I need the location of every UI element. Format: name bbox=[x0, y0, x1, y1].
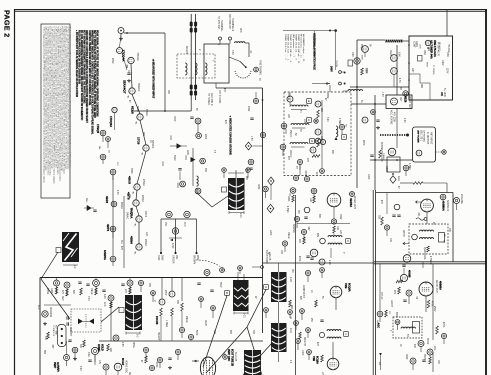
svg-text:SOUND: SOUND bbox=[292, 224, 294, 233]
svg-text:340V: 340V bbox=[405, 354, 407, 360]
tuner TP 3B bbox=[403, 91, 408, 96]
svg-text:T1 TP(M3): T1 TP(M3) bbox=[432, 65, 434, 75]
res 3B2 bbox=[361, 68, 364, 75]
tuner input coil bbox=[235, 42, 245, 43]
svg-text:6.3V: 6.3V bbox=[116, 190, 118, 195]
svg-text:47K: 47K bbox=[120, 246, 122, 251]
svg-text:6CQ8A: 6CQ8A bbox=[316, 356, 319, 364]
svg-text:10K: 10K bbox=[44, 336, 46, 341]
svg-text:22K: 22K bbox=[298, 239, 300, 244]
svg-text:100K: 100K bbox=[301, 350, 303, 356]
yoke A leads bbox=[212, 196, 228, 207]
svg-text:TEST: TEST bbox=[426, 62, 428, 68]
sync circles mid bbox=[113, 335, 119, 341]
svg-text:VIDEO OUT: VIDEO OUT bbox=[353, 196, 355, 209]
svg-text:.047: .047 bbox=[51, 344, 53, 349]
svg-text:8.2K: 8.2K bbox=[103, 294, 105, 299]
svg-text:RF interference .......... 14: RF interference .......... 14 bbox=[300, 34, 303, 58]
svg-text:TERMINAL: TERMINAL bbox=[220, 20, 223, 32]
svg-text:SET TO PRODUCE 30 VOLTS PEAK-T: SET TO PRODUCE 30 VOLTS PEAK-TO-PEAK SIG… bbox=[93, 30, 96, 118]
svg-text:1 MEG: 1 MEG bbox=[165, 320, 167, 327]
svg-text:4BU8: 4BU8 bbox=[128, 176, 132, 184]
svg-text:2ND IF: 2ND IF bbox=[289, 130, 291, 138]
svg-text:HORIZ: HORIZ bbox=[97, 344, 100, 352]
svg-text:2C2: 2C2 bbox=[116, 162, 118, 165]
svg-text:62VAC: 62VAC bbox=[145, 109, 148, 116]
240v TP bbox=[253, 98, 258, 103]
svg-text:15K: 15K bbox=[280, 250, 282, 255]
svg-text:1K5: 1K5 bbox=[303, 119, 305, 124]
svg-text:30V: 30V bbox=[175, 255, 177, 260]
VHF tuner box bbox=[409, 36, 453, 100]
svg-text:★ MEASURED WITH SWEEP INPUT: ★ MEASURED WITH SWEEP INPUT bbox=[152, 58, 155, 99]
svg-text:TUNER 175-23 VHF sch ..... 12: TUNER 175-23 VHF sch ..... 12 bbox=[297, 34, 299, 64]
svg-text:180K: 180K bbox=[287, 196, 289, 202]
audio quad box bbox=[393, 317, 422, 338]
IF right coil bbox=[336, 126, 338, 137]
uhf dotted leader bbox=[380, 134, 406, 136]
svg-text:3CB6: 3CB6 bbox=[136, 106, 138, 112]
svg-text:9-21: 9-21 bbox=[239, 213, 241, 218]
svg-text:82K: 82K bbox=[72, 290, 74, 295]
svg-text:3BZ6: 3BZ6 bbox=[130, 168, 132, 174]
svg-text:(SEE NOTES): (SEE NOTES) bbox=[312, 36, 314, 49]
afc diode box bbox=[71, 309, 101, 332]
svg-text:220K: 220K bbox=[365, 68, 367, 74]
svg-text:SEP: SEP bbox=[61, 296, 63, 301]
sound quad box bbox=[409, 224, 448, 254]
svg-text:9-19: 9-19 bbox=[289, 328, 291, 333]
blob D top wires bbox=[237, 272, 239, 280]
svg-text:17C9: 17C9 bbox=[137, 137, 141, 145]
svg-text:3AL: 3AL bbox=[98, 146, 101, 149]
bottom bus y341 bbox=[99, 340, 263, 342]
svg-text:165V: 165V bbox=[257, 184, 259, 190]
svg-text:2AV2: 2AV2 bbox=[111, 58, 114, 64]
svg-text:X: X bbox=[343, 135, 345, 139]
svg-text:68K: 68K bbox=[290, 305, 292, 310]
svg-text:4BZ6: 4BZ6 bbox=[105, 196, 109, 203]
svg-text:CONT: CONT bbox=[413, 41, 415, 48]
yoke pictorial B bbox=[62, 232, 79, 262]
svg-text:68K: 68K bbox=[204, 168, 206, 173]
svg-text:MIX: MIX bbox=[427, 47, 429, 52]
svg-text:270K: 270K bbox=[155, 362, 157, 368]
svg-text:FINE TUNING: FINE TUNING bbox=[259, 60, 261, 75]
agc line parts bbox=[190, 117, 193, 119]
svg-text:30V: 30V bbox=[176, 300, 178, 305]
svg-text:USE 175-1: USE 175-1 bbox=[420, 130, 422, 142]
sync wires bbox=[56, 278, 58, 281]
afc diagonals bbox=[41, 279, 70, 319]
svg-text:SPKR: SPKR bbox=[426, 338, 428, 345]
svg-text:AGC KEYING: AGC KEYING bbox=[390, 110, 393, 125]
svg-text:OSC: OSC bbox=[87, 352, 89, 357]
IF row2 bbox=[281, 123, 287, 129]
agc diamond mid bbox=[245, 142, 251, 150]
svg-text:23VAC: 23VAC bbox=[142, 179, 145, 186]
svg-text:1K: 1K bbox=[388, 311, 390, 314]
svg-text:OSC: OSC bbox=[446, 52, 448, 57]
svg-text:PICT TUBE: PICT TUBE bbox=[55, 325, 57, 336]
svg-text:PIX: PIX bbox=[297, 210, 299, 214]
agc diamond2 bbox=[390, 176, 396, 184]
svg-text:30V: 30V bbox=[148, 283, 150, 288]
IF out wire bbox=[351, 103, 386, 105]
svg-text:4HM6A: 4HM6A bbox=[442, 201, 446, 212]
svg-text:140V: 140V bbox=[157, 255, 159, 261]
afc TP left bbox=[42, 311, 48, 317]
svg-text:6.8K: 6.8K bbox=[121, 342, 123, 347]
sync box outline bbox=[40, 277, 263, 279]
audio tubes bbox=[402, 265, 405, 267]
svg-text:39K: 39K bbox=[320, 108, 322, 113]
svg-text:VERT: VERT bbox=[204, 320, 206, 327]
svg-text:470K: 470K bbox=[171, 243, 173, 249]
svg-text:5VAC: 5VAC bbox=[173, 155, 176, 161]
IF bottom tps bbox=[297, 159, 302, 164]
osc TP bbox=[354, 58, 360, 64]
svg-text:SOUND IF: SOUND IF bbox=[446, 200, 448, 212]
connector strip bbox=[58, 325, 67, 347]
svg-text:1ST IF: 1ST IF bbox=[287, 93, 289, 101]
interlock bbox=[339, 71, 342, 74]
svg-text:4.5MC: 4.5MC bbox=[286, 206, 288, 213]
svg-text:HORIZ OSC: HORIZ OSC bbox=[125, 360, 127, 373]
svg-text:10K: 10K bbox=[389, 238, 391, 243]
svg-text:ARROWS ON CONTROLS INDICATE CL: ARROWS ON CONTROLS INDICATE CLOCKWISE RO… bbox=[85, 30, 88, 124]
IF verticals bbox=[321, 100, 323, 168]
svg-text:TP: TP bbox=[442, 240, 444, 243]
svg-text:100K: 100K bbox=[367, 174, 369, 180]
svg-text:8.2K: 8.2K bbox=[79, 366, 81, 371]
svg-text:265V: 265V bbox=[164, 290, 166, 296]
video det box bbox=[386, 95, 412, 109]
svg-text:227V: 227V bbox=[446, 68, 448, 74]
svg-text:TX: TX bbox=[406, 334, 408, 337]
svg-text:6AW8A: 6AW8A bbox=[103, 250, 107, 261]
svg-text:6CG7: 6CG7 bbox=[121, 358, 125, 366]
svg-text:FILT: FILT bbox=[183, 222, 185, 227]
takeoff circle bbox=[261, 266, 264, 269]
sound box outline bbox=[376, 192, 453, 194]
yoke B lead bbox=[41, 252, 58, 279]
svg-text:X: X bbox=[347, 239, 349, 243]
svg-text:RATIO: RATIO bbox=[402, 230, 405, 237]
svg-text:9-21: 9-21 bbox=[243, 313, 245, 318]
page border right bbox=[485, 9, 487, 375]
flyback arc bbox=[196, 260, 226, 272]
svg-text:CONTRAST: CONTRAST bbox=[302, 285, 305, 298]
notes text box bbox=[41, 24, 70, 198]
IF dashed box bbox=[284, 92, 351, 176]
agc cluster bbox=[379, 150, 382, 158]
svg-text:15K: 15K bbox=[164, 222, 166, 227]
svg-text:240V: 240V bbox=[330, 66, 333, 72]
svg-text:47K: 47K bbox=[61, 290, 63, 295]
svg-text:1.2K: 1.2K bbox=[57, 366, 59, 371]
svg-text:UHF: UHF bbox=[239, 28, 241, 33]
svg-text:3.3K: 3.3K bbox=[231, 50, 233, 55]
svg-text:350V: 350V bbox=[219, 282, 221, 288]
IF row3 bbox=[280, 144, 286, 150]
svg-text:BRIGHT: BRIGHT bbox=[303, 337, 305, 346]
svg-text:150V: 150V bbox=[173, 116, 175, 122]
svg-text:7AL: 7AL bbox=[127, 95, 130, 98]
b+ vertical wires bbox=[356, 40, 358, 188]
bottom big tube bbox=[200, 357, 215, 375]
sync bottom parts bbox=[143, 347, 148, 352]
svg-text:AFC: AFC bbox=[37, 305, 40, 310]
mid circles2 bbox=[204, 270, 210, 276]
svg-text:.015: .015 bbox=[123, 80, 125, 85]
yoke A top wires bbox=[235, 170, 237, 178]
svg-text:1ST AF: 1ST AF bbox=[380, 292, 383, 300]
svg-text:TP: TP bbox=[107, 150, 109, 153]
svg-text:Socket voltages measured with: Socket voltages measured with no signal … bbox=[69, 27, 72, 169]
svg-text:560K: 560K bbox=[195, 330, 197, 336]
svg-text:7AL: 7AL bbox=[134, 223, 137, 226]
blob EF wires bbox=[278, 302, 280, 323]
svg-text:ALIGNMENT subject ........ 15: ALIGNMENT subject ........ 15 bbox=[302, 34, 305, 62]
svg-text:4BZ6: 4BZ6 bbox=[404, 96, 408, 103]
svg-text:VIDEO DET: VIDEO DET bbox=[408, 96, 410, 109]
svg-text:←AGC: ←AGC bbox=[377, 320, 380, 328]
svg-text:7AL: 7AL bbox=[132, 191, 135, 194]
svg-text:6BQ7: 6BQ7 bbox=[360, 44, 362, 51]
tube 3A bbox=[362, 46, 369, 53]
svg-text:SYNC: SYNC bbox=[46, 288, 48, 295]
svg-text:.001: .001 bbox=[417, 212, 419, 217]
svg-text:.0047: .0047 bbox=[304, 170, 306, 176]
svg-text:33K: 33K bbox=[378, 215, 380, 220]
svg-text:(OPTIONAL): (OPTIONAL) bbox=[423, 130, 426, 142]
svg-text:140V: 140V bbox=[441, 60, 443, 66]
svg-text:A: A bbox=[265, 285, 267, 289]
svg-text:TO VHF ANT: TO VHF ANT bbox=[217, 16, 220, 30]
svg-text:RING: RING bbox=[132, 342, 134, 348]
svg-text:BROWN: BROWN bbox=[193, 255, 195, 264]
svg-text:6CQ8A: 6CQ8A bbox=[348, 283, 352, 292]
bottom border mid bbox=[263, 262, 375, 264]
svg-text:MIX: MIX bbox=[420, 84, 422, 89]
svg-text:47K 220K: 47K 220K bbox=[393, 112, 395, 123]
svg-text:VERT OSC: VERT OSC bbox=[227, 349, 230, 361]
svg-text:265V: 265V bbox=[362, 140, 364, 146]
svg-text:2.2K: 2.2K bbox=[328, 260, 330, 265]
pilot tube bbox=[118, 28, 124, 34]
contrast cluster bbox=[305, 270, 310, 275]
svg-text:680K: 680K bbox=[395, 312, 397, 318]
divider x295 bottom bbox=[295, 263, 297, 375]
svg-text:CONTROL VIEWED FROM SHAFT END: CONTROL VIEWED FROM SHAFT END SET FOR NO… bbox=[88, 30, 91, 106]
chain wire2 bbox=[123, 196, 125, 268]
heater diode bbox=[84, 206, 94, 211]
svg-text:AUDIO OUT: AUDIO OUT bbox=[435, 280, 438, 293]
svg-text:DISCRIM: DISCRIM bbox=[49, 307, 51, 317]
switch TP bbox=[254, 67, 259, 72]
svg-text:22VAC: 22VAC bbox=[141, 195, 144, 202]
wire antenna down bbox=[190, 100, 192, 111]
mid bottom parts bbox=[151, 291, 156, 296]
svg-text:1K: 1K bbox=[310, 290, 312, 293]
diamond 271 bbox=[268, 177, 274, 185]
svg-text:F: F bbox=[308, 118, 310, 122]
svg-text:4BT6: 4BT6 bbox=[106, 224, 110, 231]
svg-text:7AL: 7AL bbox=[134, 251, 137, 254]
svg-text:29VAC: 29VAC bbox=[120, 202, 123, 209]
svg-text:LIN: LIN bbox=[213, 330, 215, 334]
svg-text:35C5: 35C5 bbox=[423, 354, 425, 360]
antenna solid box bbox=[204, 44, 229, 83]
4.5mc tube bbox=[388, 148, 396, 156]
svg-text:6EA8: 6EA8 bbox=[131, 106, 135, 114]
svg-text:HEIGHT: HEIGHT bbox=[157, 332, 159, 341]
svg-text:10K: 10K bbox=[309, 198, 311, 203]
heater chain tubes bbox=[128, 57, 134, 63]
svg-text:ANT INPUT: ANT INPUT bbox=[430, 132, 433, 145]
balun dashed box bbox=[177, 54, 215, 78]
svg-text:AGC 2ND IF: AGC 2ND IF bbox=[210, 93, 213, 106]
blob G bbox=[244, 350, 261, 375]
svg-text:TERMINALS: TERMINALS bbox=[231, 18, 234, 32]
svg-text:17BQ6: 17BQ6 bbox=[96, 124, 100, 134]
fine tuning switch bbox=[240, 61, 246, 67]
svg-text:13V: 13V bbox=[98, 360, 100, 365]
svg-text:3.9K: 3.9K bbox=[326, 117, 328, 122]
svg-text:33K: 33K bbox=[79, 344, 81, 349]
svg-text:470K: 470K bbox=[298, 256, 300, 262]
svg-text:300 OHM ANT: 300 OHM ANT bbox=[228, 14, 231, 30]
svg-text:6CG7 TUBE 2B: 6CG7 TUBE 2B bbox=[231, 349, 234, 366]
svg-text:7AL: 7AL bbox=[135, 121, 138, 124]
video det wires bbox=[396, 109, 398, 149]
svg-text:ANT: ANT bbox=[411, 68, 414, 73]
schematics list bbox=[283, 30, 336, 32]
svg-text:33K: 33K bbox=[252, 330, 254, 335]
svg-text:80V: 80V bbox=[316, 233, 318, 238]
sound IF parts bbox=[413, 182, 423, 185]
svg-text:150V: 150V bbox=[339, 214, 341, 220]
svg-text:B+ 140V: B+ 140V bbox=[443, 88, 445, 97]
svg-text:4.5MC: 4.5MC bbox=[338, 118, 340, 125]
svg-text:TEST POINT: TEST POINT bbox=[265, 250, 267, 264]
svg-text:AS TUNER 94A: AS TUNER 94A bbox=[430, 40, 434, 59]
svg-text:4BZ8A: 4BZ8A bbox=[349, 198, 353, 208]
svg-text:VERT: VERT bbox=[53, 362, 56, 369]
tuner top wire bbox=[446, 10, 448, 36]
svg-text:UHF provisions ........... 7: UHF provisions ........... 7 bbox=[292, 34, 295, 58]
svg-text:10K: 10K bbox=[336, 226, 338, 231]
svg-text:1K: 1K bbox=[149, 140, 151, 143]
svg-text:TO PIN: TO PIN bbox=[335, 60, 337, 68]
svg-text:17DQ6A: 17DQ6A bbox=[109, 116, 113, 128]
svg-text:TP: TP bbox=[344, 124, 346, 127]
divider dbl bbox=[372, 190, 374, 375]
antenna twin lead bbox=[190, 14, 192, 100]
svg-text:24VAC: 24VAC bbox=[126, 212, 129, 219]
svg-text:1MEG: 1MEG bbox=[287, 232, 289, 239]
svg-text:VOL: VOL bbox=[433, 346, 435, 351]
svg-text:4.5MC: 4.5MC bbox=[408, 163, 410, 170]
ant terminals bbox=[219, 37, 222, 40]
svg-text:3906: 3906 bbox=[361, 55, 363, 61]
svg-text:1ST IF GRID: 1ST IF GRID bbox=[218, 90, 220, 104]
svg-text:OSC: OSC bbox=[351, 52, 353, 57]
svg-text:5K: 5K bbox=[321, 296, 323, 299]
svg-text:PAGE 2: PAGE 2 bbox=[3, 10, 10, 38]
heater TP column bbox=[100, 130, 106, 136]
svg-text:VOLUME: VOLUME bbox=[460, 194, 462, 204]
svg-text:A601: A601 bbox=[186, 150, 189, 156]
svg-text:68K: 68K bbox=[229, 330, 231, 335]
svg-text:TO PIN 3 OF: TO PIN 3 OF bbox=[52, 325, 54, 337]
svg-text:29VAC: 29VAC bbox=[144, 239, 147, 246]
svg-text:TP: TP bbox=[295, 166, 297, 169]
blob E bbox=[271, 272, 287, 302]
svg-text:3AL: 3AL bbox=[120, 240, 123, 245]
svg-text:82K: 82K bbox=[299, 296, 301, 301]
video amp cluster bbox=[290, 188, 296, 194]
svg-text:PM: PM bbox=[443, 234, 445, 237]
svg-text:TUNER 175-3 Cont ......... 2: TUNER 175-3 Cont ......... 2 bbox=[284, 34, 287, 60]
IF transformer blob D bbox=[233, 280, 249, 311]
svg-text:E: E bbox=[308, 99, 310, 103]
svg-text:RF AGC: RF AGC bbox=[438, 42, 441, 51]
sync circles top bbox=[54, 280, 60, 286]
sync extra bbox=[44, 304, 71, 306]
svg-text:3.3K: 3.3K bbox=[87, 296, 89, 301]
svg-text:4.7K: 4.7K bbox=[398, 78, 400, 83]
svg-text:PEAK: PEAK bbox=[389, 50, 392, 57]
svg-text:GRID: GRID bbox=[385, 166, 387, 172]
svg-text:.047: .047 bbox=[307, 226, 309, 231]
svg-text:OSC: OSC bbox=[423, 50, 425, 55]
svg-text:TUNER 175-22 VHF sch ..... 6: TUNER 175-22 VHF sch ..... 6 bbox=[289, 34, 291, 63]
svg-text:12AX7: 12AX7 bbox=[390, 300, 393, 308]
svg-text:PEAK SIGNAL AT PICTURE TUBE UN: PEAK SIGNAL AT PICTURE TUBE UNDER NORMAL… bbox=[95, 30, 98, 117]
svg-text:TUNER 175-22 Cont ........ 4: TUNER 175-22 Cont ........ 4 bbox=[287, 34, 290, 61]
svg-text:◄ INDICATES CHASSIS GROUND: ◄ INDICATES CHASSIS GROUND bbox=[229, 115, 232, 155]
tube 6J6b bbox=[391, 68, 398, 75]
svg-text:220K: 220K bbox=[204, 134, 206, 140]
svg-text:1.5K: 1.5K bbox=[381, 92, 383, 97]
svg-text:3A: 3A bbox=[369, 44, 372, 47]
pointer diagonals bbox=[203, 296, 227, 368]
svg-text:SEL: SEL bbox=[85, 198, 87, 203]
svg-text:4HM6A: 4HM6A bbox=[439, 281, 443, 290]
svg-text:DET: DET bbox=[399, 97, 401, 102]
svg-text:V2B: V2B bbox=[312, 356, 316, 361]
page border top bbox=[14, 9, 487, 11]
voltage ladder bbox=[161, 218, 197, 220]
yoke pictorial A bbox=[228, 178, 245, 210]
svg-text:1MEG: 1MEG bbox=[90, 288, 92, 295]
blob F bbox=[271, 323, 287, 352]
wire to IF bus bbox=[216, 87, 263, 89]
svg-text:4.7MEG: 4.7MEG bbox=[429, 256, 431, 265]
svg-text:DC COIL RESISTANCE FIGURES UND: DC COIL RESISTANCE FIGURES UNDER ONE OHM… bbox=[80, 30, 83, 121]
sound right wire bbox=[435, 264, 437, 300]
top hatched coil bbox=[385, 40, 403, 43]
svg-text:376VAC: 376VAC bbox=[136, 53, 139, 62]
sync transformer blob C bbox=[125, 295, 142, 330]
svg-text:PIX: PIX bbox=[291, 269, 293, 273]
sound arrows bbox=[403, 242, 409, 245]
svg-text:2.2K: 2.2K bbox=[403, 118, 405, 123]
svg-text:300 B: 300 B bbox=[144, 211, 146, 217]
svg-text:470K: 470K bbox=[442, 322, 444, 328]
